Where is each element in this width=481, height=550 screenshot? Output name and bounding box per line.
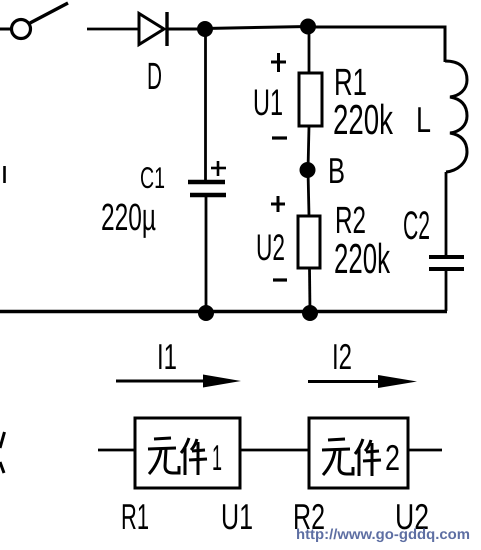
label + (U1) — [271, 53, 286, 72]
node (C1 bottom junction) — [198, 305, 214, 321]
svg-text:220k: 220k — [333, 96, 394, 143]
svg-text:220k: 220k — [334, 235, 391, 282]
svg-text:L: L — [416, 99, 431, 140]
label + (U2) — [271, 196, 285, 212]
box 元件1 — [135, 418, 240, 488]
svg-text:R1: R1 — [121, 496, 149, 537]
label B — [328, 150, 345, 191]
svg-text:D: D — [147, 56, 162, 98]
node (R2 bottom junction) — [302, 305, 318, 321]
label minus (U2) — [273, 278, 287, 281]
wire (bottom rail) — [0, 310, 447, 313]
wire (node B to R2) — [308, 170, 309, 216]
wire (lead out of box 2) — [408, 449, 442, 452]
wire (lead into box 1) — [98, 449, 135, 452]
label I2 — [332, 336, 352, 377]
svg-text:C1: C1 — [140, 162, 165, 195]
box 元件2 — [309, 418, 408, 488]
svg-text:http://www.go-gddq.com: http://www.go-gddq.com — [296, 527, 470, 543]
wire (L to C2) — [445, 172, 448, 256]
resistor R1 — [299, 73, 322, 126]
capacitor C1 — [188, 161, 226, 195]
wire (C1 to bottom node) — [205, 195, 208, 313]
label U1 (bottom) — [221, 496, 253, 537]
svg-text:U1: U1 — [253, 82, 283, 123]
label C1 — [140, 162, 165, 195]
label 元件2 — [322, 437, 400, 478]
svg-text:220µ: 220µ — [101, 197, 156, 239]
label R1 (bottom) — [121, 496, 149, 537]
label L — [416, 99, 431, 140]
svg-text:1: 1 — [212, 437, 222, 478]
node (top of R1 column) — [300, 19, 316, 35]
watermark URL — [296, 527, 470, 543]
svg-text:I2: I2 — [332, 336, 352, 377]
wire (R2 to bottom node) — [308, 268, 311, 313]
wire (top node down to R1) — [308, 27, 311, 73]
label D — [147, 56, 162, 98]
capacitor C2 — [429, 257, 464, 269]
wire (node down to C1) — [204, 29, 207, 181]
svg-text:U1: U1 — [221, 496, 253, 537]
wire (box1 to box2) — [240, 449, 309, 452]
arrow I2 — [308, 375, 417, 388]
label minus (U1) — [272, 136, 287, 139]
label U2 — [256, 227, 285, 268]
wire (top, node to node B column) — [205, 27, 308, 29]
label 220µ — [101, 197, 156, 239]
diode D — [139, 12, 167, 46]
label 元件1 — [148, 437, 222, 478]
label 220k (R2 value) — [334, 235, 391, 282]
arrow I1 — [116, 375, 241, 388]
wire (diode to node) — [167, 28, 204, 31]
label 220k (R1 value) — [333, 96, 394, 143]
label C2 — [403, 204, 430, 248]
stray mark (left edge, lower) — [0, 432, 5, 473]
resistor R2 — [298, 216, 320, 268]
wire (top right + right drop) — [308, 27, 445, 62]
svg-text:I1: I1 — [157, 336, 177, 377]
wire (left stub to switch) — [0, 28, 11, 31]
svg-text:B: B — [328, 150, 345, 191]
svg-text:2: 2 — [385, 437, 400, 478]
label R2 (bottom) — [293, 496, 325, 537]
svg-text:U2: U2 — [256, 227, 285, 268]
node B — [300, 162, 316, 178]
wire (R1 to node B) — [308, 126, 309, 170]
label U1 — [253, 82, 283, 123]
label I1 — [157, 336, 177, 377]
label R2 — [335, 200, 366, 242]
tick mark (left edge, mid) — [3, 166, 6, 183]
switch S — [12, 3, 69, 39]
wire (switch to diode) — [87, 28, 139, 31]
wire (C2 down to bottom corner) — [445, 269, 448, 311]
label U2 (bottom) — [395, 496, 429, 537]
label R1 — [334, 62, 367, 104]
inductor L — [445, 61, 467, 172]
svg-text:C2: C2 — [403, 204, 430, 248]
node (diode output junction) — [197, 21, 213, 37]
